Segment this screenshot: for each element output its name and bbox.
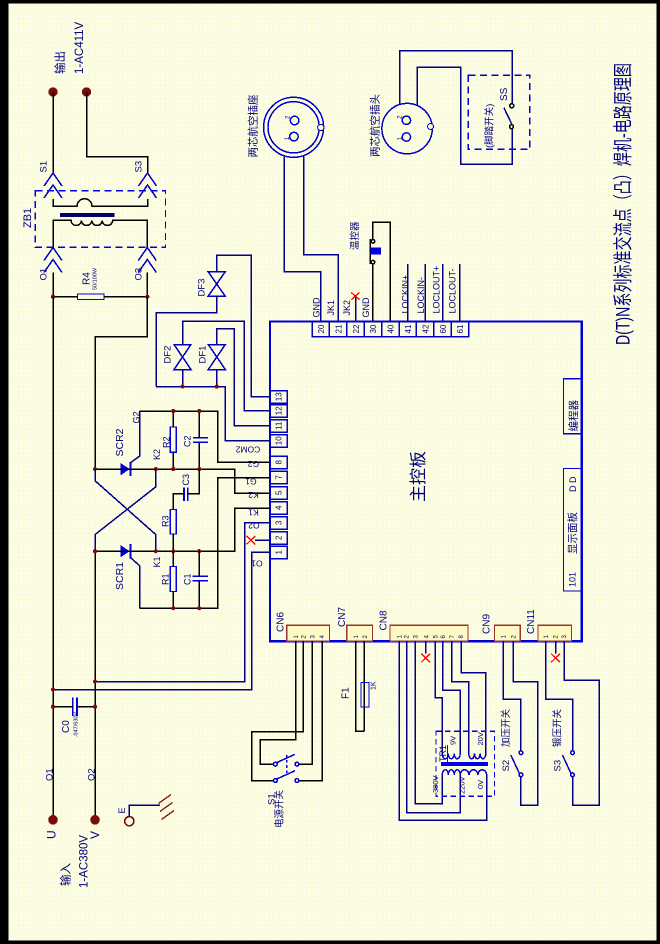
CN6 pin digits — [294, 635, 326, 639]
top pin header boxes 20-61 — [312, 322, 469, 337]
svg-text:20V: 20V — [476, 732, 485, 745]
connector arrow S1 — [44, 173, 62, 186]
svg-text:CN6: CN6 — [276, 612, 287, 632]
svg-text:22: 22 — [352, 324, 361, 333]
SCR1 anode rail K1 — [95, 508, 270, 551]
svg-text:JK2: JK2 — [342, 300, 352, 316]
wire pin41 LOCKIN+ stub — [407, 264, 409, 322]
aviation plug pin 2 — [402, 116, 410, 124]
svg-text:电源开关: 电源开关 — [274, 789, 286, 828]
wire CN8 pin4 stub — [425, 641, 427, 653]
frame border bottom — [0, 941, 660, 944]
aviation plug key notch — [428, 124, 434, 130]
wire R1 top — [172, 551, 174, 566]
wire DF2 bottom — [182, 370, 184, 387]
svg-text:CN11: CN11 — [526, 609, 537, 634]
svg-text:42: 42 — [421, 324, 430, 333]
svg-text:编程器: 编程器 — [567, 400, 580, 432]
svg-text:G2: G2 — [132, 411, 142, 423]
wire COM2 line to pin10 — [156, 387, 270, 441]
wire O2/V bus below SCR1 — [94, 551, 96, 820]
svg-text:锻压开关: 锻压开关 — [552, 708, 564, 747]
connector arrow O3 — [138, 248, 156, 261]
wire DF3 top to pin13 — [217, 255, 270, 396]
wire O1 run to board pin1 — [53, 552, 270, 689]
node SCR1 anode — [93, 549, 97, 553]
svg-text:加压开关: 加压开关 — [500, 708, 512, 747]
resistor R3 — [170, 509, 176, 534]
switch S3 contacts — [571, 751, 575, 777]
wire O1 arrow to R4 row — [52, 273, 54, 297]
thermostat terminal bottom — [371, 260, 375, 264]
svg-text:1-AC411V: 1-AC411V — [74, 21, 86, 74]
node C1 on G1 rail — [197, 606, 201, 610]
resistor R4 — [78, 294, 105, 300]
no-connect X on CN8 pin4 — [421, 654, 430, 663]
connector CN8 — [390, 625, 468, 641]
wire C3 left to R3 — [173, 494, 184, 510]
svg-text:20: 20 — [317, 324, 326, 333]
svg-text:两芯航空插头: 两芯航空插头 — [369, 94, 382, 157]
wire R2 top — [172, 411, 174, 427]
svg-text:61: 61 — [456, 324, 465, 333]
svg-text:输出: 输出 — [53, 51, 67, 74]
svg-text:1: 1 — [275, 550, 284, 555]
frame border right — [657, 0, 660, 944]
switch SS lever — [504, 108, 512, 125]
svg-text:40: 40 — [387, 324, 396, 333]
svg-text:ZB1: ZB1 — [22, 208, 34, 228]
wire R4 right — [104, 296, 147, 298]
aviation socket key notch — [318, 124, 324, 130]
svg-text:GND: GND — [312, 297, 322, 318]
wire CN6 pin3 to S1 — [299, 641, 312, 764]
connector CN6 — [287, 625, 330, 641]
wire CN11 pin2 stub — [555, 641, 557, 653]
svg-text:COM2: COM2 — [235, 444, 260, 454]
wire O2 run to board pin3 — [95, 523, 270, 682]
aviation socket pin 1 — [290, 132, 299, 141]
svg-text:F1: F1 — [341, 687, 352, 699]
wire CN8 pin6 to TR1 9V-b — [443, 641, 461, 753]
wire CN9 pin1 to S2 — [503, 641, 521, 751]
diac DF2 — [174, 345, 191, 370]
wire plug to SS bottom — [417, 67, 512, 164]
CN7 pin digits — [354, 635, 369, 639]
svg-text:D D: D D — [568, 476, 578, 492]
node SCR2 cathode X branch — [154, 467, 158, 471]
svg-text:SCR1: SCR1 — [114, 562, 126, 590]
svg-text:8: 8 — [275, 460, 284, 465]
frame border left — [0, 0, 9, 944]
transformer TR1 dashed box — [436, 731, 495, 796]
wire CN7 pin2 through fuse — [363, 641, 365, 731]
node SCR2 anode — [93, 467, 97, 471]
wire socket to pin20 GND — [284, 157, 320, 322]
left pin header boxes 13..1 — [270, 391, 287, 559]
wire CN6 pin1 to S1 — [260, 641, 296, 764]
wire CN11 pin1 to S3 — [546, 641, 573, 751]
svg-text:5: 5 — [275, 490, 284, 495]
node R2 gate rail — [171, 409, 175, 413]
svg-text:11: 11 — [275, 421, 284, 430]
svg-text:O1: O1 — [45, 768, 56, 781]
svg-text:C2: C2 — [183, 435, 193, 447]
TR1 primary winding 220V-0V — [460, 770, 487, 775]
wire thermostat to pin40 — [373, 222, 390, 322]
ZB1 primary winding (bottom) — [53, 220, 147, 247]
svg-text:显示面板: 显示面板 — [566, 512, 579, 554]
node C1 on K1 rail — [197, 549, 201, 553]
X-cross wire net A — [95, 469, 156, 551]
wire O3 arrow to R4 row — [146, 273, 148, 297]
thermostat body block — [370, 248, 381, 255]
svg-text:50/100W: 50/100W — [93, 267, 99, 290]
svg-text:DF1: DF1 — [198, 346, 209, 364]
transformer ZB1 dashed box — [35, 191, 165, 248]
svg-text:O1: O1 — [251, 558, 263, 568]
svg-text:0V: 0V — [476, 780, 485, 789]
svg-text:LOCKIN-: LOCKIN- — [416, 277, 426, 314]
node O2 branch — [93, 680, 97, 684]
switch S2 contacts — [519, 751, 523, 777]
capacitor C2 — [193, 438, 208, 442]
svg-text:21: 21 — [334, 324, 343, 333]
svg-text:G2: G2 — [248, 459, 260, 469]
capacitor C3 — [184, 488, 188, 502]
wire pin42 LOCKIN- stub — [424, 264, 426, 322]
switch S1 dashed link — [286, 755, 288, 773]
capacitor C0 plates — [73, 697, 77, 716]
svg-text:C1: C1 — [183, 573, 193, 585]
switch SS contact bottom — [510, 125, 514, 129]
svg-text:TR1: TR1 — [438, 745, 448, 762]
no-connect X on pin2 — [247, 536, 256, 545]
wire E to ground — [129, 805, 160, 816]
main board 主控板 rectangle — [270, 322, 582, 642]
svg-text:7: 7 — [275, 475, 284, 480]
node R1 on G1 rail — [171, 606, 175, 610]
svg-text:O1: O1 — [39, 268, 50, 281]
node DF1 on COM2 — [215, 385, 219, 389]
wire CN6 pin4 to S1 — [299, 641, 322, 780]
svg-text:JK1: JK1 — [326, 300, 336, 316]
no-connect X on JK2 — [351, 293, 359, 300]
svg-text:O2: O2 — [87, 768, 98, 781]
wire S2 bottom to CN9 pin2 — [513, 641, 538, 805]
node R4 right — [145, 295, 149, 299]
svg-text:输入: 输入 — [59, 863, 73, 886]
wire CN8 pin2 to TR1 220V — [407, 641, 461, 812]
svg-text:LOCLOUT-: LOCLOUT- — [448, 268, 458, 313]
aviation plug circle — [382, 103, 432, 153]
svg-text:D(T)N系列标准交流点（凸）焊机-电路原理图: D(T)N系列标准交流点（凸）焊机-电路原理图 — [613, 63, 635, 345]
SCR2 cathode rail K2 — [95, 469, 270, 493]
node C2 gate rail — [197, 409, 201, 413]
node SCR1 X branch — [154, 549, 158, 553]
node C0 left — [51, 705, 55, 709]
svg-text:41: 41 — [404, 324, 413, 333]
svg-text:3: 3 — [275, 520, 284, 525]
wire R3 bottom to K1 rail — [172, 534, 174, 551]
wire R2 bottom — [172, 452, 174, 469]
CN9 pin digits — [501, 635, 517, 639]
svg-text:温控器: 温控器 — [349, 221, 361, 250]
frame border top — [0, 0, 660, 4]
SCR2 gate rail G2 — [140, 411, 271, 462]
svg-text:CN7: CN7 — [337, 607, 348, 627]
wire O3 bus jog to SCR bus — [95, 297, 147, 469]
wire CN8 pin5 to TR1 9V-a — [435, 641, 442, 753]
wire C1 top — [198, 551, 200, 576]
switch S3 lever — [562, 755, 571, 773]
svg-text:9V: 9V — [449, 736, 458, 745]
wire socket to pin21 JK1 — [304, 157, 339, 322]
thermostat terminal top — [371, 240, 375, 244]
foot switch SS dashed box — [468, 75, 529, 149]
switch S1 levers — [277, 754, 295, 762]
input terminal V — [90, 815, 100, 825]
svg-text:S3: S3 — [134, 161, 145, 173]
svg-text:主控板: 主控板 — [409, 451, 428, 502]
node R4 left — [51, 295, 55, 299]
switch SS contact top — [510, 104, 514, 108]
X-cross wire net B — [95, 469, 156, 551]
thermostat contact bar — [369, 239, 371, 264]
programmer box 编程器 — [563, 379, 581, 434]
wire DF2 top to pin12 — [183, 321, 271, 411]
switch S2 lever — [511, 755, 520, 773]
connector CN11 — [538, 625, 571, 641]
fuse F1 — [361, 682, 369, 707]
node R2 cathode rail — [171, 467, 175, 471]
svg-text:R3: R3 — [161, 515, 171, 527]
svg-text:K2: K2 — [248, 490, 259, 500]
node C2 cathode rail — [197, 467, 201, 471]
wire CN8 pin1 to TR1 0V — [399, 641, 487, 820]
wire O1 bus down to bottom — [52, 297, 54, 820]
wire S3 bottom to CN11 pin3 — [564, 641, 599, 805]
wire pin2 stub — [255, 539, 270, 541]
output terminal S3 side — [82, 87, 91, 96]
wire C2 top — [198, 411, 200, 438]
input terminal U — [48, 815, 58, 825]
node O1 branch — [51, 688, 55, 692]
wire C1 bottom — [198, 581, 200, 608]
wire DF3 bottom to COM2 line — [156, 296, 217, 387]
ZB1 secondary winding (top) — [53, 199, 148, 206]
svg-text:13: 13 — [275, 392, 284, 401]
input terminal E (open) — [125, 817, 134, 826]
svg-text:CN8: CN8 — [379, 610, 390, 630]
connector arrow O1 — [44, 248, 62, 261]
svg-text:S1: S1 — [39, 161, 50, 173]
svg-text:G1: G1 — [245, 477, 257, 487]
svg-text:CN9: CN9 — [482, 614, 493, 634]
wire pin61 LOCLOUT- stub — [459, 264, 461, 322]
TR1 secondary winding 20V — [469, 754, 486, 759]
wire CN8 pin3 to TR1 380V — [415, 641, 442, 803]
resistor R1 — [170, 567, 176, 592]
wire DF1 top to pin11 — [217, 329, 270, 426]
SCR1 gate rail G1 to pin7 — [140, 478, 270, 609]
wire C0 left — [53, 706, 73, 708]
svg-text:1K: 1K — [371, 681, 378, 690]
svg-text:O3: O3 — [134, 268, 145, 281]
aviation plug pin 1 — [402, 133, 410, 141]
svg-text:12: 12 — [275, 406, 284, 415]
wire DF1 bottom — [216, 370, 218, 387]
wire thermostat to pin30 GND — [372, 264, 374, 322]
thyristor SCR1 — [120, 544, 139, 608]
svg-text:LOCKIN+: LOCKIN+ — [400, 275, 410, 314]
svg-text:S2: S2 — [501, 760, 512, 772]
CN8 pin digits — [397, 635, 465, 639]
wire CN8 pin8 to TR1 20V-b — [461, 641, 486, 753]
connector CN7 — [347, 625, 373, 641]
svg-text:4: 4 — [275, 505, 284, 510]
wire CN7 pin1 fuse loop — [356, 641, 365, 731]
TR1 core bar — [441, 762, 488, 766]
svg-text:.047/630V: .047/630V — [74, 712, 80, 737]
svg-text:GND: GND — [361, 297, 371, 318]
svg-text:1-AC380V: 1-AC380V — [79, 835, 91, 888]
svg-text:DF3: DF3 — [197, 279, 208, 297]
wire R1 bottom — [172, 592, 174, 609]
svg-text:C0: C0 — [61, 720, 72, 733]
wire CN8 pin7 to TR1 20V-a — [452, 641, 469, 753]
svg-text:10: 10 — [275, 436, 284, 445]
svg-text:C3: C3 — [181, 474, 191, 486]
wire pin22 JK2 stub — [355, 297, 357, 322]
wire terminal to S3 arrow — [87, 92, 148, 173]
TR1 secondary winding 9V — [442, 754, 460, 759]
diac DF1 — [208, 345, 225, 370]
svg-text:K2: K2 — [152, 449, 162, 460]
aviation socket pin 2 — [290, 116, 299, 125]
diac DF3 — [208, 272, 225, 296]
wire terminal to S1 arrow — [52, 92, 54, 173]
wire C2 bottom — [198, 442, 200, 469]
svg-text:K1: K1 — [152, 556, 162, 567]
switch S1 contacts — [273, 762, 298, 782]
svg-text:K1: K1 — [248, 507, 259, 517]
CN11 pin digits — [544, 635, 568, 639]
ground symbol — [159, 795, 175, 820]
svg-text:60: 60 — [439, 324, 448, 333]
wire CN6 pin2 to S1 — [252, 641, 303, 780]
resistor R2 — [170, 427, 176, 452]
no-connect X on CN11 pin2 — [551, 654, 560, 663]
svg-text:U: U — [45, 830, 59, 839]
svg-text:O2: O2 — [248, 520, 260, 530]
wire R4 left — [53, 296, 78, 298]
svg-text:S3: S3 — [553, 760, 564, 772]
wire plug to SS top — [400, 51, 513, 105]
svg-text:30: 30 — [369, 324, 378, 333]
svg-text:2: 2 — [275, 535, 284, 540]
svg-text:R4: R4 — [82, 272, 93, 285]
svg-text:两芯航空插座: 两芯航空插座 — [247, 95, 260, 158]
wire pin60 LOCLOUT+ stub — [442, 264, 444, 322]
display panel box 显示面板 — [563, 469, 581, 591]
node DF2 on COM2 — [180, 385, 184, 389]
wire C3 right to K2 rail — [188, 469, 200, 494]
thyristor SCR2 — [120, 411, 139, 476]
ZB1 core bar — [60, 213, 115, 217]
svg-text:DF2: DF2 — [163, 346, 174, 364]
svg-text:SS: SS — [499, 87, 510, 101]
node R3/R1 on K1 rail — [171, 549, 175, 553]
node C0 right — [93, 705, 97, 709]
aviation socket outer circle — [264, 97, 324, 157]
wire C0 right — [77, 706, 95, 708]
svg-text:SCR2: SCR2 — [114, 428, 126, 456]
svg-text:220V: 220V — [458, 776, 467, 794]
output terminal S1 side — [48, 87, 57, 96]
svg-text:380V: 380V — [431, 775, 440, 793]
connector CN9 — [495, 625, 521, 641]
TR1 primary winding 380V-220V — [442, 770, 460, 775]
aviation socket inner circle — [268, 102, 319, 153]
svg-text:(脚踏开关): (脚踏开关) — [484, 104, 496, 148]
capacitor C1 — [192, 576, 208, 581]
svg-text:E: E — [117, 807, 127, 813]
svg-text:R1: R1 — [161, 573, 171, 585]
svg-text:101: 101 — [568, 572, 578, 587]
svg-text:LOCLOUT+: LOCLOUT+ — [432, 266, 442, 314]
connector arrow S3 — [139, 173, 157, 186]
